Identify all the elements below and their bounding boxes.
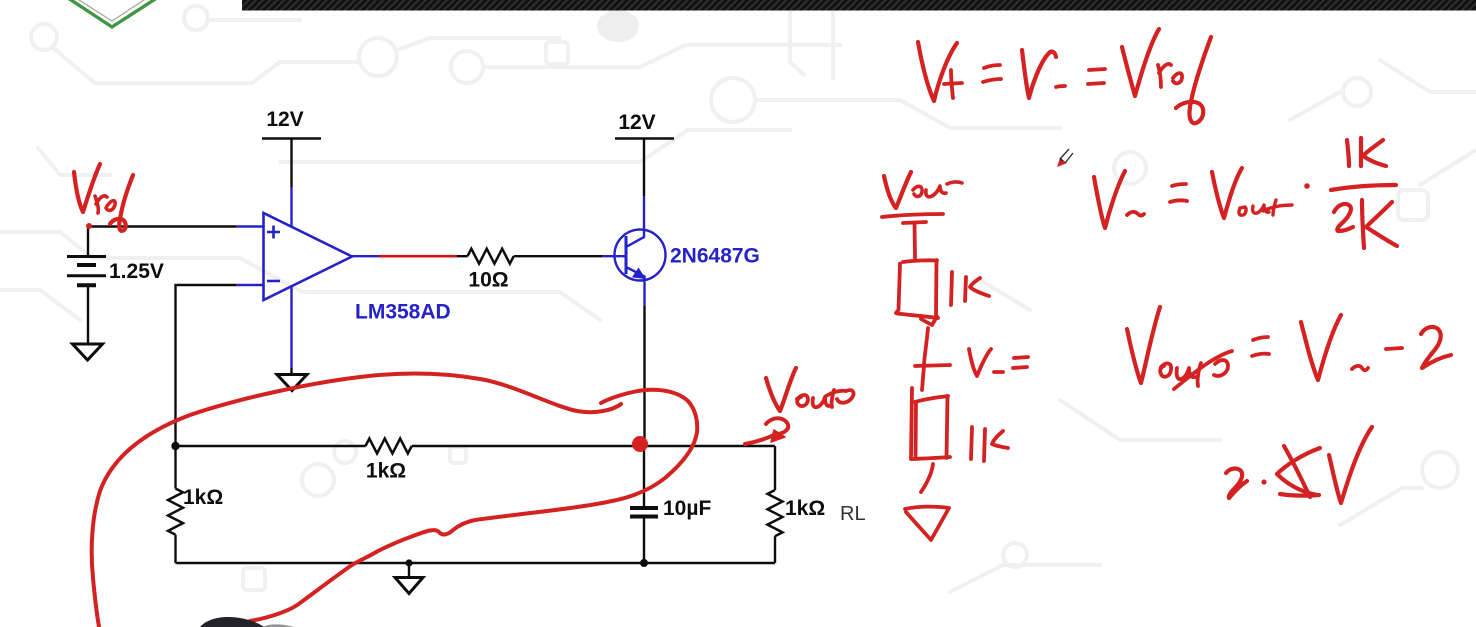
resistor R 10ohm zigzag	[468, 249, 514, 264]
wire op-amp minus input	[176, 285, 237, 446]
red sketch voltage divider Vout label	[882, 172, 962, 217]
svg-text:10Ω: 10Ω	[468, 269, 508, 292]
wire op-amp ground stem	[290, 368, 292, 374]
red formula V- = Vout x 1K/2K	[1094, 138, 1397, 248]
resistor R2 1k zigzag horizontal	[366, 439, 412, 454]
red sketch top stem	[903, 222, 926, 223]
red formula V+ = V- = Vref	[918, 29, 1211, 123]
red sketch ground	[905, 507, 949, 540]
wire mid rail horizontal	[176, 445, 366, 447]
wire Vref node to op-amp plus input	[88, 225, 236, 227]
wire R1 to bottom rail	[174, 535, 176, 563]
supply bar 12V op-amp	[262, 137, 321, 139]
op-amp minus sign	[267, 280, 280, 283]
wire supply blue segment into op-amp	[290, 187, 292, 226]
wire 10ohm to transistor base	[514, 255, 602, 257]
svg-text:RL: RL	[840, 503, 866, 525]
wire capacitor top lead	[643, 446, 645, 506]
red sketch junction tick and V- =	[915, 349, 1028, 376]
battery B1 plates	[67, 257, 106, 286]
wire blue plus input	[236, 225, 263, 227]
red sketch stem to ground	[921, 464, 933, 492]
wire output to 10ohm resistor	[457, 255, 468, 257]
red node dot on output net	[633, 437, 647, 451]
wire emitter down to output node	[643, 306, 645, 446]
red annotation arrow under Vout	[745, 418, 788, 444]
wire left branch to R1	[174, 446, 176, 489]
svg-text:2N6487G: 2N6487G	[670, 245, 760, 268]
wire blue minus input	[236, 284, 263, 286]
svg-text:12V: 12V	[618, 111, 655, 134]
wire bottom rail	[176, 562, 776, 564]
red scribble 2 less-than V crossed	[1226, 427, 1372, 503]
wire capacitor bottom lead	[643, 517, 645, 563]
red sketch stem middle	[924, 328, 928, 364]
junction node dot left	[171, 442, 179, 450]
wire red output segment	[379, 255, 457, 258]
red loop stroke left	[92, 373, 621, 627]
wire mid rail to Vout corner	[412, 445, 775, 447]
transistor base bar	[625, 236, 628, 274]
svg-text:1kΩ: 1kΩ	[183, 486, 223, 509]
red annotation Vout label near circuit	[766, 368, 853, 411]
svg-text:1.25V: 1.25V	[109, 260, 164, 283]
red annotation Vref handwriting	[74, 164, 133, 231]
wire battery stem bottom to ground	[87, 286, 89, 344]
wire right branch down to RL	[774, 446, 776, 490]
wire battery stem top	[87, 227, 89, 257]
transistor emitter arrow	[634, 269, 645, 278]
resistor RL 1k zigzag vertical	[768, 490, 783, 536]
transistor Q1 circle	[615, 230, 666, 281]
red sketch stem to box 2	[922, 366, 924, 390]
svg-text:1kΩ: 1kΩ	[366, 460, 406, 483]
resistor R1 1k zigzag vertical	[168, 489, 183, 535]
junction node dot capacitor	[640, 559, 648, 567]
wire blue into transistor base	[602, 255, 626, 257]
wire RL to bottom rail	[774, 536, 776, 563]
red sketch label 1k bottom	[971, 427, 1008, 461]
op-amp plus sign	[267, 226, 280, 239]
pencil cursor icon	[1057, 149, 1073, 167]
red loop stroke right	[250, 390, 697, 621]
red sketch resistor box 2	[911, 388, 950, 459]
wire blue below op-amp	[290, 286, 292, 368]
darker bg blob top middle	[597, 10, 639, 42]
red sketch resistor box 1	[896, 260, 938, 325]
svg-text:1kΩ: 1kΩ	[785, 497, 825, 520]
red formula Vout = V- - 2	[1127, 307, 1451, 389]
svg-text:LM358AD: LM358AD	[355, 301, 451, 324]
ground symbol bottom rail	[395, 578, 423, 594]
capacitor C1 plates	[630, 506, 658, 510]
svg-text:12V: 12V	[266, 108, 303, 131]
wire 12V bar down to collector (black part)	[643, 139, 645, 197]
wire 12V bar down (black part)	[290, 139, 292, 188]
junction node dot ground	[405, 559, 412, 566]
wire ground stem bottom rail	[408, 563, 410, 577]
green logo chevron	[68, 0, 163, 27]
wire blue output segment	[352, 255, 379, 257]
op-amp U1 triangle	[264, 213, 353, 300]
transistor collector lead	[626, 196, 644, 247]
black blob bottom	[200, 617, 264, 627]
transistor emitter lead	[627, 268, 645, 307]
ground symbol battery	[73, 344, 103, 360]
red sketch label 1K top	[951, 272, 989, 305]
svg-text:10µF: 10µF	[663, 497, 711, 520]
supply bar 12V transistor	[615, 137, 674, 139]
ground symbol op-amp supply	[277, 375, 307, 391]
